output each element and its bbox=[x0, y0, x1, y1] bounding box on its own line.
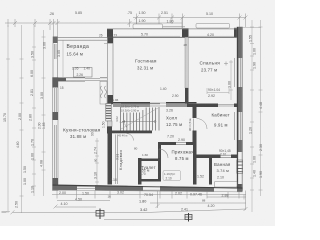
toilet / prihozhaya wall bbox=[158, 145, 161, 179]
entrance door lines bbox=[143, 187, 160, 190]
room label bedroom bbox=[200, 61, 221, 73]
room label bathroom bbox=[214, 162, 231, 180]
veranda / living wall bbox=[108, 37, 114, 104]
left chain2 texts bbox=[15, 70, 35, 208]
bedroom window bar bbox=[196, 24, 230, 29]
stairs south wall bbox=[107, 131, 152, 134]
kitchen / veranda wall bbox=[58, 78, 107, 81]
dim 4.20 in bedroom top bbox=[188, 33, 234, 37]
prihozhaya wall right stub bbox=[186, 142, 197, 145]
bedroom interior dim bbox=[228, 60, 234, 100]
left dimension chain 3 bbox=[32, 25, 36, 196]
bedroom door dims bbox=[207, 88, 229, 98]
hall / office wall bbox=[193, 107, 197, 118]
kladovaya / toilet wall bbox=[138, 158, 142, 185]
left wall dark segment 2 bbox=[53, 112, 59, 120]
left wall dark segment 1 bbox=[53, 78, 59, 88]
bottom dimension row D (overall) bbox=[11, 190, 248, 214]
right wall dark segment 1 bbox=[237, 27, 243, 58]
dim 5.70 above living bbox=[113, 33, 180, 37]
office / bathroom wall bbox=[197, 155, 221, 159]
bottom dimension row A line bbox=[52, 191, 246, 211]
bedroom south wall bbox=[187, 104, 218, 108]
top dimension row 1 texts bbox=[139, 11, 214, 24]
living room window bar bbox=[133, 24, 163, 29]
entrance door label box bbox=[163, 171, 181, 181]
veranda step texts bbox=[72, 67, 90, 78]
office bathroom door lines bbox=[221, 155, 232, 157]
left edge scan artifact bbox=[2, 211, 7, 213]
bathroom west wall bbox=[209, 158, 212, 185]
kladovaya west wall bbox=[108, 134, 113, 185]
prihozhaya door gap bbox=[176, 143, 186, 145]
bottom dim row C left bbox=[54, 205, 97, 209]
right wall dark segment 3 bbox=[237, 140, 243, 152]
veranda door to kitchen bbox=[85, 79, 100, 81]
living room window lines bbox=[107, 28, 243, 30]
kitchen bottom window lines bbox=[77, 187, 95, 189]
kitchen door arc bbox=[120, 122, 128, 130]
right dimension chain 2 bbox=[259, 20, 263, 196]
room label hall bbox=[166, 116, 182, 128]
right chain1 texts bbox=[249, 35, 257, 177]
left chain3 texts bbox=[23, 51, 35, 193]
bathroom bottom window bar bbox=[215, 181, 238, 187]
top wall dark pillar mid bbox=[182, 28, 189, 37]
room label prihozhaya bbox=[172, 150, 195, 162]
right wall dark segment 2 bbox=[237, 87, 243, 112]
left dimension chain 2 bbox=[20, 25, 24, 213]
bottom wall dark segment 1 bbox=[53, 185, 78, 191]
left dimension chain 4 (veranda) bbox=[42, 30, 46, 196]
kitchen sink squiggle bbox=[101, 86, 107, 98]
top wall dark corner right bbox=[234, 28, 243, 38]
hall opening line bbox=[150, 103, 166, 106]
top main wall band bbox=[107, 29, 243, 37]
bottom wall dark segment 2 bbox=[95, 185, 143, 191]
bottom dimension row B bbox=[57, 195, 246, 204]
toilet north wall bbox=[138, 159, 161, 162]
office door arc bbox=[197, 119, 208, 130]
living bedroom door dims bbox=[160, 87, 179, 98]
stairs block bbox=[115, 104, 160, 131]
veranda left window bbox=[55, 44, 57, 59]
living / bedroom wall bbox=[185, 37, 188, 88]
storage door arc bbox=[127, 134, 134, 141]
living bedroom door dark chunk bbox=[185, 88, 189, 104]
bottom wall outer edge bbox=[53, 190, 243, 192]
benchmark glyph 2 bbox=[185, 213, 192, 222]
room label veranda bbox=[67, 44, 90, 56]
left wall window lines bbox=[54, 88, 56, 178]
hall / prihozhaya wall bbox=[158, 142, 176, 145]
office bathroom wall right stub bbox=[231, 155, 237, 159]
left dimension chain 1 (overall) bbox=[6, 25, 10, 213]
toilet door arc bbox=[159, 149, 168, 158]
bottom wall dark segment 4 bbox=[237, 188, 243, 192]
top dimension row 1 line bbox=[133, 14, 248, 29]
left chain4 texts bbox=[38, 42, 47, 167]
chimney stripes bbox=[106, 106, 111, 119]
kitchen counter bbox=[100, 81, 107, 104]
top dimension row 2 line (left part) bbox=[5, 18, 182, 37]
room label office bbox=[212, 113, 230, 128]
right wall window lines bbox=[235, 58, 241, 140]
benchmark leader line bbox=[104, 218, 186, 220]
chimney block black bbox=[106, 104, 111, 122]
hall office wall lower bbox=[193, 131, 197, 146]
bottom row A texts bbox=[59, 191, 229, 203]
veranda interior dims bbox=[57, 40, 63, 77]
left outer wall band bbox=[53, 78, 59, 191]
prihozhaya / bathroom niche wall bbox=[193, 145, 197, 185]
wall labels near veranda wall top bbox=[99, 34, 117, 38]
bottom wall dark segment 3 bbox=[160, 186, 214, 191]
right dimension chain 1 bbox=[250, 20, 254, 212]
veranda left wall bbox=[53, 37, 58, 82]
kitchen interior dim chain bbox=[94, 138, 100, 185]
living / hall wall bbox=[113, 102, 150, 107]
right chain2 texts bbox=[259, 102, 263, 178]
stairs labels bbox=[121, 105, 139, 113]
left wall dark segment 3 bbox=[53, 178, 59, 190]
veranda step rect bbox=[74, 68, 93, 78]
top dimension row 2 texts bbox=[49, 11, 132, 16]
bedroom tick bbox=[224, 62, 228, 66]
right outer wall band bbox=[237, 27, 243, 191]
bedroom door gap lines bbox=[218, 105, 234, 107]
bedroom south wall right stub bbox=[234, 104, 237, 108]
bottom wall inner edge bbox=[53, 185, 243, 188]
room label living bbox=[135, 59, 157, 71]
veranda top wall bbox=[53, 37, 107, 40]
top wall dark pillar left bbox=[107, 29, 113, 37]
benchmark glyph bottom center bbox=[96, 209, 104, 220]
kitchen wall lower part bbox=[108, 121, 113, 127]
hall / bedroom lower wall bbox=[166, 102, 197, 107]
bottom outer wall band (sloped) bbox=[53, 185, 243, 192]
room label kitchen bbox=[63, 128, 101, 140]
